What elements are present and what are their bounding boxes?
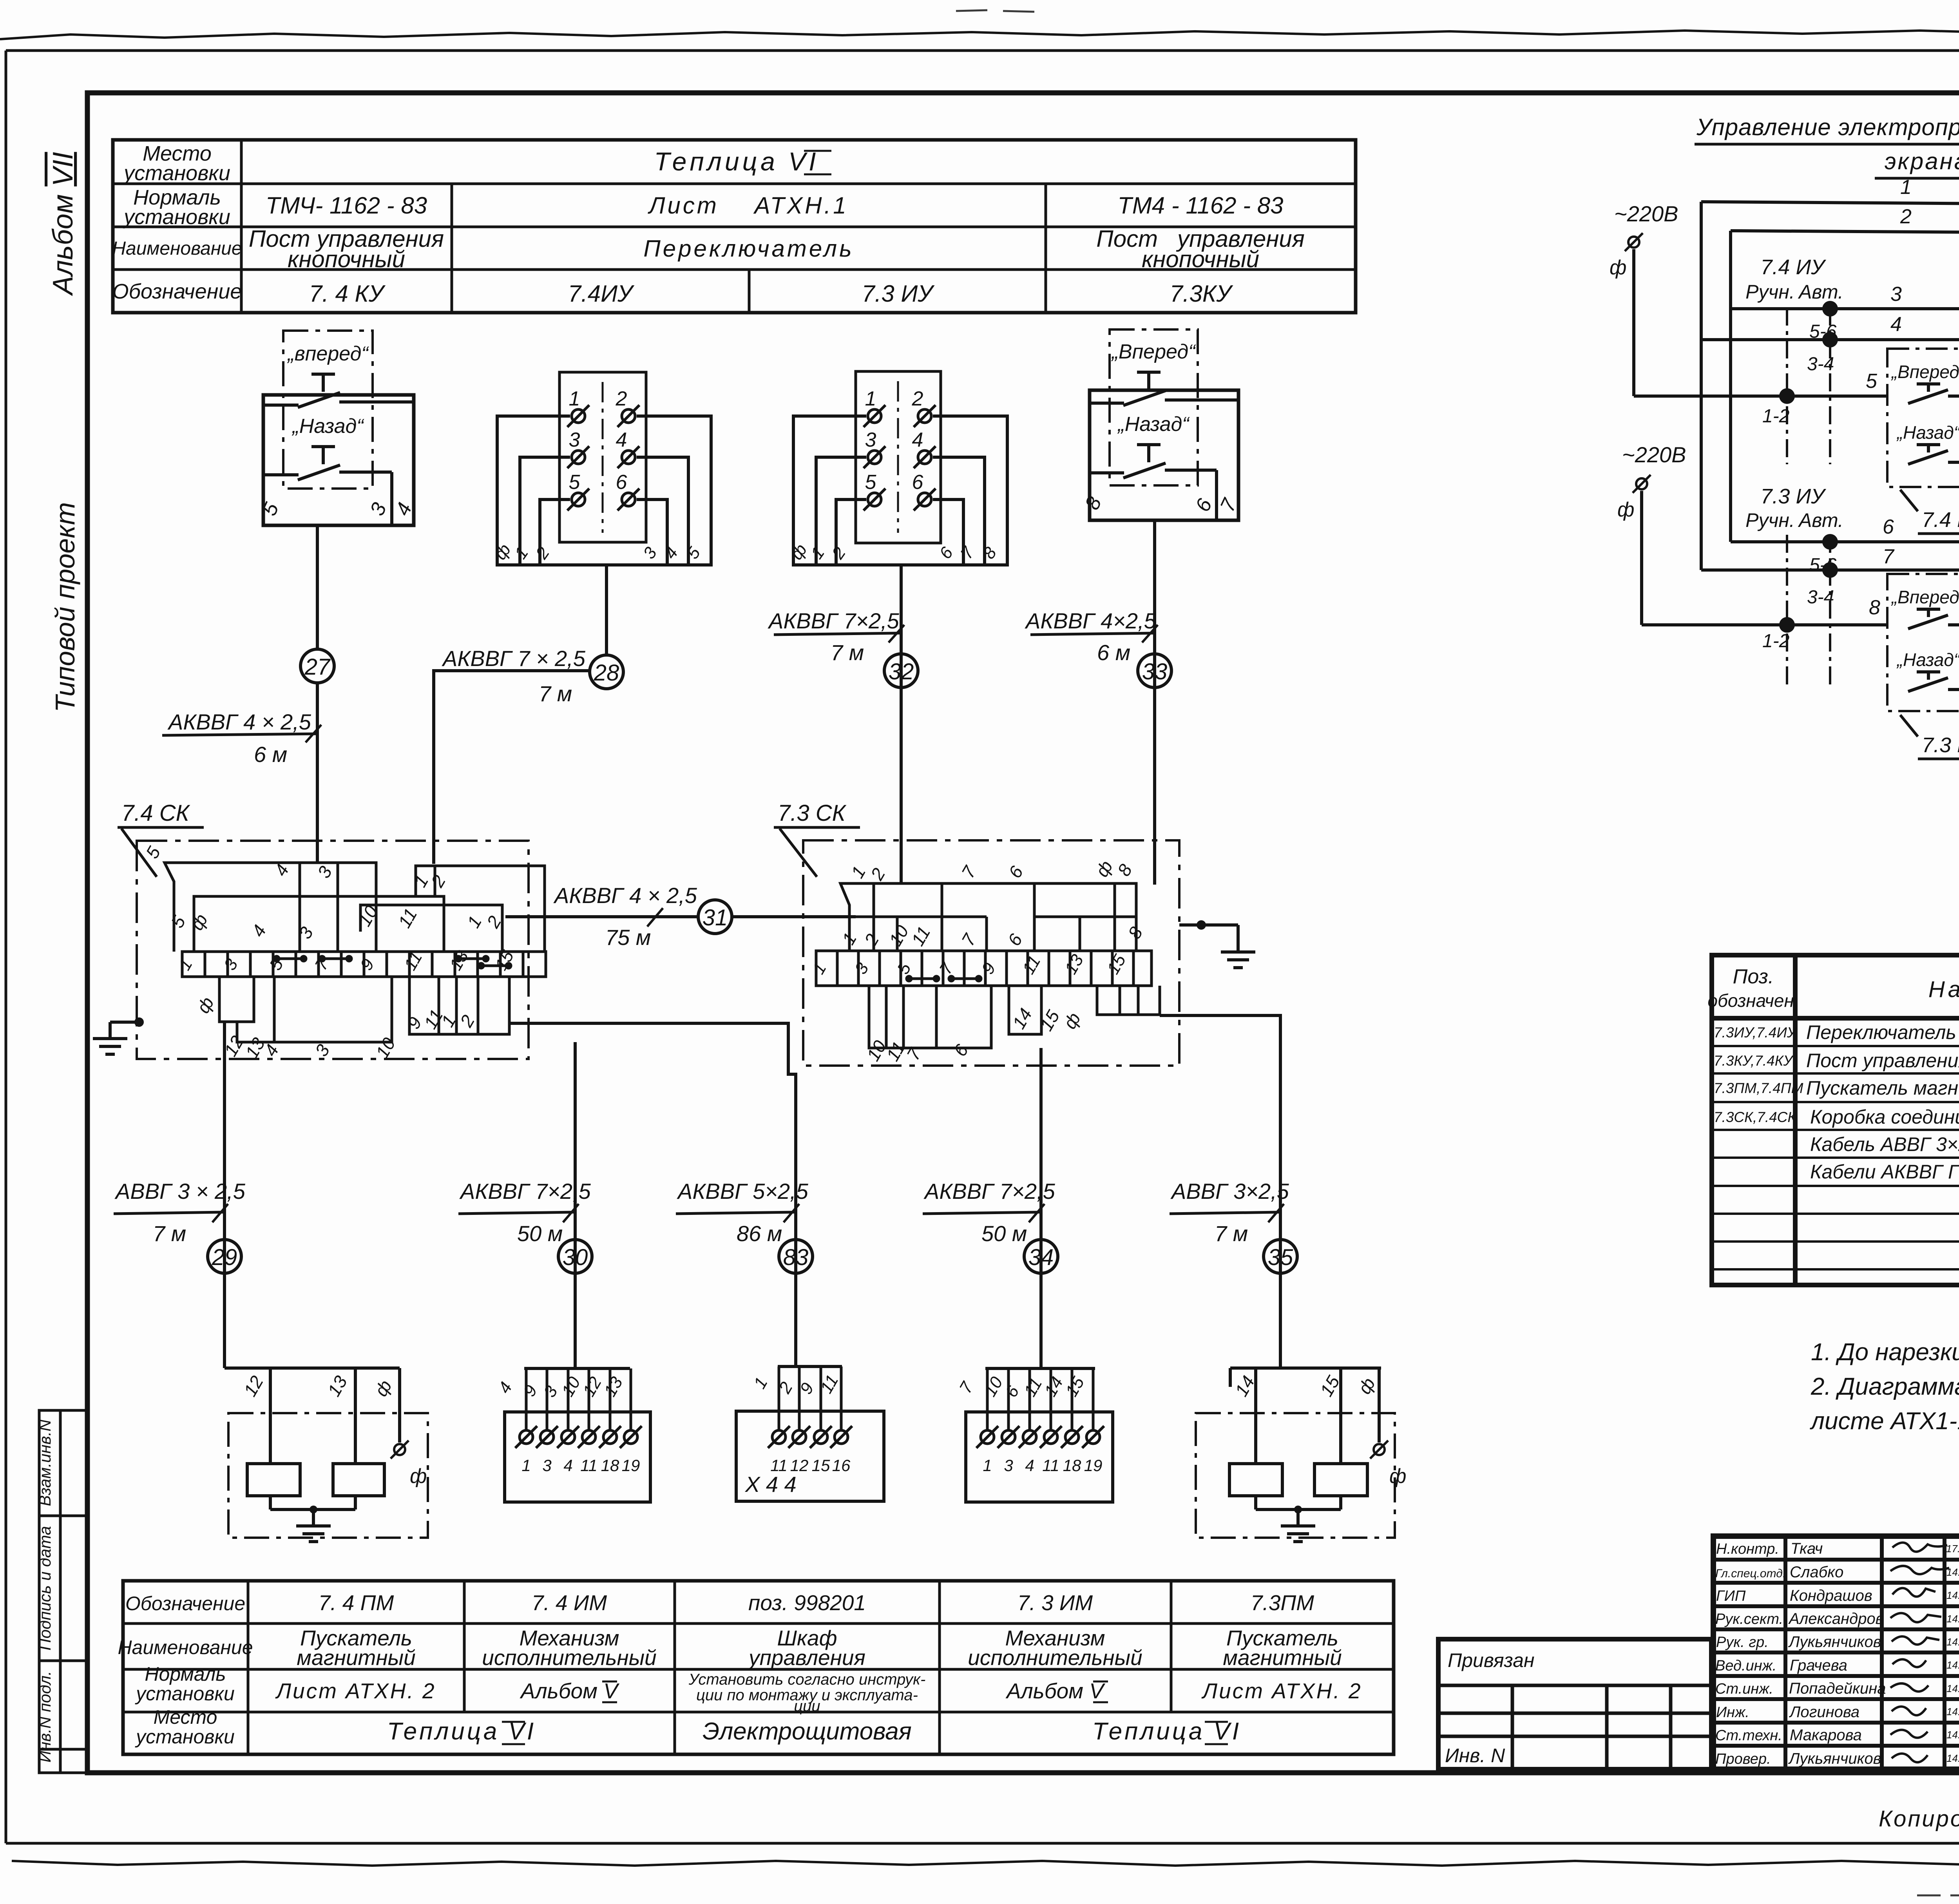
svg-text:Взам.инв.N: Взам.инв.N xyxy=(36,1419,54,1506)
svg-text:Кондрашов: Кондрашов xyxy=(1790,1587,1872,1604)
svg-text:6 м: 6 м xyxy=(1097,640,1130,665)
svg-text:„Назад“: „Назад“ xyxy=(291,415,364,438)
cable mark circle 34 xyxy=(1024,1240,1058,1273)
top device table grid xyxy=(113,140,1356,313)
svg-text:ф: ф xyxy=(1610,256,1626,279)
signature names xyxy=(1788,1540,1886,1767)
svg-text:7.4 СК: 7.4 СК xyxy=(121,800,190,826)
svg-text:Лист АТХН.1: Лист АТХН.1 xyxy=(647,192,848,219)
cable wire 31 between boxes xyxy=(505,883,856,950)
svg-text:Управление электроприводами: Управление электроприводами теплозащитно… xyxy=(1696,114,1959,140)
svg-text:установки: установки xyxy=(122,205,230,229)
wire from 7.4KU down xyxy=(316,525,319,650)
cable label AKVVG 4x2.5 6m (33) xyxy=(1025,608,1158,665)
svg-text:Логинова: Логинова xyxy=(1789,1703,1859,1721)
svg-text:11: 11 xyxy=(580,1456,597,1475)
svg-text:Рук. гр.: Рук. гр. xyxy=(1716,1634,1769,1651)
svg-text:33: 33 xyxy=(1142,659,1168,684)
7.3SK jumper links xyxy=(907,976,981,981)
svg-text:Ручн.: Ручн. xyxy=(1745,281,1795,303)
svg-text:ГИП: ГИП xyxy=(1716,1588,1746,1604)
svg-text:Ткач: Ткач xyxy=(1791,1540,1823,1557)
svg-text:31: 31 xyxy=(702,905,728,930)
svg-text:5: 5 xyxy=(569,471,581,494)
svg-text:3: 3 xyxy=(542,1456,551,1475)
svg-text:Инж.: Инж. xyxy=(1716,1704,1749,1721)
7.3SK terminal strip xyxy=(816,951,1152,986)
svg-text:АКВВГ 7×2,5: АКВВГ 7×2,5 xyxy=(923,1179,1056,1204)
svg-text:Наименование: Наименование xyxy=(112,238,242,259)
svg-text:Ручн.: Ручн. xyxy=(1745,509,1795,531)
svg-text:7.3КУ: 7.3КУ xyxy=(1170,281,1233,307)
svg-text:3: 3 xyxy=(865,429,876,451)
top table row labels xyxy=(112,142,242,303)
svg-text:Александров: Александров xyxy=(1788,1610,1884,1627)
push-button post 7.4KU (schematic) xyxy=(1887,349,1959,534)
svg-text:Лукьянчиков: Лукьянчиков xyxy=(1788,1633,1881,1651)
scan artifact dashes xyxy=(956,10,1959,1895)
wire 5 to button post xyxy=(1634,370,1887,396)
svg-text:6: 6 xyxy=(616,471,627,494)
svg-text:7.3ПМ,7.4ПМ: 7.3ПМ,7.4ПМ xyxy=(1714,1080,1803,1096)
svg-text:7. 4 КУ: 7. 4 КУ xyxy=(309,281,386,307)
svg-text:4: 4 xyxy=(1890,313,1902,336)
svg-text:7.3СК,7.4СК: 7.3СК,7.4СК xyxy=(1714,1109,1797,1125)
cable label ABBG 3x2.5 7m (29) xyxy=(114,1179,246,1246)
svg-text:Инв.N подл.: Инв.N подл. xyxy=(36,1671,54,1763)
svg-text:Лукьянчиков: Лукьянчиков xyxy=(1788,1750,1881,1767)
7.4SK lower cable rectangles xyxy=(219,977,509,1042)
cabinet terminal box X44 xyxy=(736,1366,884,1501)
svg-text:Альбом V: Альбом V xyxy=(1005,1679,1105,1703)
svg-text:„Вперед“: „Вперед“ xyxy=(1111,340,1197,363)
svg-text:4: 4 xyxy=(616,429,627,451)
packet switch 7.3IU xyxy=(787,371,1007,565)
wire 8 to button post xyxy=(1642,596,1887,625)
cable mark circle 83 xyxy=(779,1240,813,1273)
svg-text:Альбом VII: Альбом VII xyxy=(47,152,79,296)
svg-text:АКВВГ 5×2,5: АКВВГ 5×2,5 xyxy=(677,1179,809,1204)
svg-text:2. Диаграмма работы переключ: 2. Диаграмма работы переключателей дана … xyxy=(1811,1373,1959,1400)
svg-text:установки: установки xyxy=(122,161,230,185)
VI overline marks in top table xyxy=(804,151,831,174)
title block outer xyxy=(1713,1536,1959,1769)
top table values xyxy=(249,147,1305,307)
svg-text:1-2: 1-2 xyxy=(1762,406,1789,427)
svg-text:50 м: 50 м xyxy=(517,1221,563,1246)
wire 27 to junction box xyxy=(316,683,319,864)
svg-text:Инв. N: Инв. N xyxy=(1445,1745,1505,1766)
svg-text:1. До нарезки кабелей длины: 1. До нарезки кабелей длины трасс уточни… xyxy=(1811,1339,1959,1366)
svg-text:магнитный: магнитный xyxy=(1223,1645,1342,1670)
actuator terminal box 7.4IM xyxy=(494,1368,650,1502)
svg-text:4: 4 xyxy=(563,1456,572,1475)
svg-text:Пост управления кнопочный П: Пост управления кнопочный ПКЕ 222-2 xyxy=(1806,1050,1959,1071)
cable mark circle 35 xyxy=(1264,1240,1297,1273)
svg-text:29: 29 xyxy=(212,1245,237,1270)
bus wire from 7.4SK to cable 83 xyxy=(509,1023,796,1366)
svg-text:7: 7 xyxy=(1883,545,1895,568)
sheet scan edge top xyxy=(0,29,1959,39)
7.4SK upper cable rectangles xyxy=(165,863,545,952)
svg-text:14.01.86: 14.01.86 xyxy=(1946,1613,1959,1625)
svg-text:7. 3 ИМ: 7. 3 ИМ xyxy=(1018,1591,1093,1615)
svg-text:поз. 998201: поз. 998201 xyxy=(748,1591,866,1615)
svg-text:2: 2 xyxy=(616,387,627,410)
svg-text:Привязан: Привязан xyxy=(1448,1649,1535,1671)
svg-text:Типовой проект: Типовой проект xyxy=(50,502,80,713)
cable label AKVVG 7x2.5 50m (30) xyxy=(458,1179,591,1246)
svg-text:7 м: 7 м xyxy=(153,1221,186,1246)
7.4SK strip numbers xyxy=(175,947,518,974)
svg-text:Ст.инж.: Ст.инж. xyxy=(1715,1681,1773,1697)
svg-text:3-4: 3-4 xyxy=(1807,587,1834,608)
svg-text:14.01.86: 14.01.86 xyxy=(1946,1566,1959,1578)
svg-text:Обозначение: Обозначение xyxy=(112,280,242,303)
svg-text:50 м: 50 м xyxy=(981,1221,1027,1246)
svg-text:Копировал Перелыгина: Копировал Перелыгина xyxy=(1879,1806,1959,1832)
svg-text:магнитный: магнитный xyxy=(297,1645,415,1670)
svg-text:19: 19 xyxy=(1084,1456,1103,1475)
svg-text:15: 15 xyxy=(812,1456,830,1475)
wire 6 xyxy=(1731,516,1959,625)
svg-text:4: 4 xyxy=(912,429,923,451)
svg-text:7.3 СК: 7.3 СК xyxy=(778,800,847,826)
privyazan box xyxy=(1438,1639,1711,1769)
svg-text:19: 19 xyxy=(622,1456,640,1475)
push-button post 7.3KU (schematic) xyxy=(1887,574,1959,759)
cable label AKVVG 5x2.5 86m (83) xyxy=(676,1179,809,1246)
svg-text:Подпись и дата: Подпись и дата xyxy=(36,1526,54,1651)
svg-text:Обозначение: Обозначение xyxy=(125,1593,245,1614)
svg-text:1-2: 1-2 xyxy=(1762,631,1789,652)
svg-text:1: 1 xyxy=(569,387,580,410)
svg-text:8: 8 xyxy=(1869,596,1880,619)
cable mark circle 30 xyxy=(558,1240,592,1273)
svg-text:7 м: 7 м xyxy=(539,681,572,706)
svg-text:3: 3 xyxy=(1890,283,1902,306)
svg-text:установки: установки xyxy=(135,1683,235,1705)
svg-text:3-4: 3-4 xyxy=(1807,354,1834,375)
svg-text:АКВВГ 4 × 2,5: АКВВГ 4 × 2,5 xyxy=(553,883,697,908)
svg-text:ф: ф xyxy=(410,1465,427,1488)
svg-text:6: 6 xyxy=(912,471,923,494)
right schema title xyxy=(1695,114,1959,178)
junction box 7.4SK label xyxy=(118,800,204,877)
wire to circle 30 xyxy=(574,1042,577,1368)
cable label AKVVG 7x2.5 7m xyxy=(442,646,586,706)
svg-text:7. 4 ПМ: 7. 4 ПМ xyxy=(319,1591,394,1615)
svg-text:7 м: 7 м xyxy=(1215,1221,1248,1246)
cable mark circle 32 xyxy=(884,654,918,688)
wire 2 xyxy=(1731,205,1959,542)
svg-text:исполнительный: исполнительный xyxy=(482,1645,656,1670)
7.4SK upper labels xyxy=(142,843,505,942)
wire 28 to junction box xyxy=(434,671,590,864)
svg-text:Провер.: Провер. xyxy=(1715,1751,1771,1767)
svg-text:Слабко: Слабко xyxy=(1790,1564,1843,1581)
svg-text:17.01.86: 17.01.86 xyxy=(1946,1543,1959,1555)
svg-text:7.3ПМ: 7.3ПМ xyxy=(1251,1591,1314,1615)
svg-text:Нормаль: Нормаль xyxy=(145,1663,226,1685)
svg-text:~220В: ~220В xyxy=(1614,201,1678,226)
cable mark circle 29 xyxy=(208,1240,241,1273)
svg-text:14.01.86: 14.01.86 xyxy=(1946,1729,1959,1741)
svg-text:обозначен.: обозначен. xyxy=(1707,990,1799,1011)
svg-text:X 4 4: X 4 4 xyxy=(744,1472,797,1497)
svg-text:управления: управления xyxy=(747,1645,865,1670)
junction box 7.4SK outline xyxy=(137,841,529,1059)
svg-text:5: 5 xyxy=(865,471,877,494)
svg-text:14.01.86: 14.01.86 xyxy=(1946,1589,1959,1601)
svg-text:АКВВГ 4×2,5: АКВВГ 4×2,5 xyxy=(1025,608,1157,633)
parts table rows xyxy=(1714,1021,1959,1267)
svg-text:7.4 КУ: 7.4 КУ xyxy=(1922,508,1959,532)
svg-text:Лист АТХН. 2: Лист АТХН. 2 xyxy=(1201,1679,1362,1703)
svg-text:11: 11 xyxy=(1042,1456,1059,1475)
svg-text:7.3 КУ: 7.3 КУ xyxy=(1922,733,1959,757)
svg-text:Место: Место xyxy=(154,1706,217,1728)
packet switch 7.4IU xyxy=(491,372,711,565)
svg-text:1: 1 xyxy=(865,387,876,410)
actuator terminal box 7.3IM xyxy=(956,1368,1113,1502)
wire to circle 34 xyxy=(1039,1048,1043,1368)
supply ~220V upper xyxy=(1610,201,1678,396)
cable label AKVVG 7x2.5 7m (32) xyxy=(768,608,904,665)
svg-text:7.4 ИУ: 7.4 ИУ xyxy=(1760,255,1826,279)
svg-text:6 м: 6 м xyxy=(254,742,287,767)
wire to circle 29 xyxy=(223,1023,226,1356)
svg-text:ф: ф xyxy=(1617,498,1634,521)
svg-text:14.01.86: 14.01.86 xyxy=(1946,1706,1959,1718)
junction box 7.3SK label xyxy=(774,800,860,877)
magnetic starter 7.3PM xyxy=(1196,1372,1406,1542)
svg-text:кнопочный: кнопочный xyxy=(1142,246,1259,272)
svg-text:27: 27 xyxy=(304,654,331,680)
svg-text:1: 1 xyxy=(983,1456,992,1475)
wire to circle 35 xyxy=(1160,1015,1280,1273)
svg-text:ции: ции xyxy=(794,1698,820,1715)
svg-text:86 м: 86 м xyxy=(737,1221,782,1246)
svg-text:Электрощитовая: Электрощитовая xyxy=(702,1718,912,1745)
svg-text:„Назад“: „Назад“ xyxy=(1117,413,1190,436)
svg-text:„Назад“: „Назад“ xyxy=(1896,422,1959,443)
svg-text:75 м: 75 м xyxy=(605,925,651,950)
svg-text:кнопочный: кнопочный xyxy=(288,246,405,272)
7.3SK lower cable rectangles xyxy=(869,986,1160,1048)
svg-text:Н.контр.: Н.контр. xyxy=(1716,1541,1779,1557)
svg-text:32: 32 xyxy=(889,659,914,684)
push-button post 7.3KU xyxy=(1081,329,1242,520)
signature column labels xyxy=(1715,1541,1786,1767)
svg-text:7 м: 7 м xyxy=(831,640,864,665)
cable mark circle 27 xyxy=(301,649,334,683)
left side stamp boxes xyxy=(39,1410,87,1773)
svg-text:Авт.: Авт. xyxy=(1798,509,1843,531)
svg-text:Переключатель пакетный ПКП25: Переключатель пакетный ПКП25-44-13-У2 xyxy=(1806,1021,1959,1043)
ground at 7.4SK left xyxy=(93,1017,144,1054)
svg-text:исполнительный: исполнительный xyxy=(968,1645,1142,1670)
svg-text:14.01.86: 14.01.86 xyxy=(1946,1683,1959,1694)
svg-text:1: 1 xyxy=(1900,176,1912,199)
7.4SK jumper links xyxy=(274,956,511,968)
svg-text:18: 18 xyxy=(1063,1456,1081,1475)
bottom device table grid xyxy=(123,1581,1394,1754)
svg-text:АВВГ 3 × 2,5: АВВГ 3 × 2,5 xyxy=(114,1179,246,1204)
svg-text:14.01.86: 14.01.86 xyxy=(1946,1659,1959,1671)
svg-text:1: 1 xyxy=(521,1456,530,1475)
svg-text:ТМ4 - 1162 - 83: ТМ4 - 1162 - 83 xyxy=(1117,192,1283,219)
svg-text:Ст.техн.: Ст.техн. xyxy=(1715,1727,1782,1744)
wire 1 xyxy=(1701,176,1959,570)
svg-text:7.3 ИУ: 7.3 ИУ xyxy=(1760,485,1826,508)
7.3SK strip numbers xyxy=(809,951,1130,977)
svg-text:16: 16 xyxy=(832,1456,851,1475)
svg-text:Теплица VI: Теплица VI xyxy=(654,147,819,176)
V and VI overline/underline marks bottom table xyxy=(502,1681,1228,1744)
wire from 7.3KU down xyxy=(1153,520,1156,885)
svg-text:АКВВГ 7 × 2,5: АКВВГ 7 × 2,5 xyxy=(442,646,586,671)
7.3SK upper labels xyxy=(838,857,1147,950)
svg-text:34: 34 xyxy=(1028,1245,1054,1270)
wires into magnetic starter 7.4PM xyxy=(225,1273,400,1464)
svg-text:„вперед“: „вперед“ xyxy=(287,342,369,365)
svg-text:7.3ИУ,7.4ИУ: 7.3ИУ,7.4ИУ xyxy=(1714,1024,1798,1041)
svg-text:3: 3 xyxy=(569,429,580,451)
svg-text:Пускатель магнитный: Пускатель магнитный xyxy=(1806,1077,1959,1099)
svg-text:3: 3 xyxy=(1004,1456,1013,1475)
svg-text:АКВВГ 7×2,5: АКВВГ 7×2,5 xyxy=(459,1179,591,1204)
cable mark circle 28 xyxy=(590,655,623,689)
svg-text:„Вперед“: „Вперед“ xyxy=(1891,362,1959,382)
bottom table row labels xyxy=(118,1593,253,1748)
switch 7.4IU manual/auto columns xyxy=(1745,255,1843,464)
svg-text:Коробка соединительная КСК-1: Коробка соединительная КСК-16 ТУ36.1735-… xyxy=(1810,1106,1959,1128)
svg-text:18: 18 xyxy=(601,1456,619,1475)
wires into magnetic starter 7.3PM xyxy=(1230,1273,1381,1464)
wire 7 xyxy=(1701,545,1959,655)
svg-text:Установить согласно инструк-: Установить согласно инструк- xyxy=(688,1671,926,1688)
cable label ABBG 3x2.5 7m (35) xyxy=(1170,1179,1289,1246)
junction box 7.3SK outline xyxy=(803,840,1179,1066)
cable mark circle 33 xyxy=(1138,654,1171,688)
7.4SK lower labels xyxy=(193,994,479,1062)
cable label AKVVG 7x2.5 50m (34) xyxy=(923,1179,1056,1246)
push-button post 7.4KU xyxy=(258,331,416,525)
svg-text:2: 2 xyxy=(912,387,923,410)
svg-text:14.01.86: 14.01.86 xyxy=(1946,1752,1959,1764)
svg-text:АКВВГ 4 × 2,5: АКВВГ 4 × 2,5 xyxy=(167,709,311,734)
parts table header xyxy=(1707,965,1959,1011)
svg-text:установки: установки xyxy=(135,1726,235,1748)
svg-text:Макарова: Макарова xyxy=(1790,1727,1862,1744)
svg-text:30: 30 xyxy=(563,1245,588,1270)
svg-text:~220В: ~220В xyxy=(1622,442,1686,467)
notes xyxy=(1810,1339,1959,1435)
signature dates xyxy=(1946,1543,1959,1764)
ground at 7.3SK right xyxy=(1179,920,1255,968)
svg-text:4: 4 xyxy=(1025,1456,1034,1475)
svg-text:Поз.: Поз. xyxy=(1733,965,1774,988)
svg-text:6: 6 xyxy=(1883,516,1894,538)
svg-text:7.4ИУ: 7.4ИУ xyxy=(568,281,635,307)
svg-text:7.3 ИУ: 7.3 ИУ xyxy=(862,281,935,307)
svg-text:„Вперед“: „Вперед“ xyxy=(1891,587,1959,607)
svg-text:5: 5 xyxy=(1866,370,1878,393)
cable label AKVVG 4x2.5 6m xyxy=(162,709,321,767)
supply ~220V lower xyxy=(1617,442,1686,625)
wire 4 xyxy=(1701,313,1959,462)
parts list table grid xyxy=(1712,955,1959,1285)
svg-text:Рук.сект.: Рук.сект. xyxy=(1715,1611,1783,1627)
sheet scan edge bottom xyxy=(12,1860,1959,1866)
svg-text:Наименование: Наименование xyxy=(118,1636,253,1658)
svg-text:Авт.: Авт. xyxy=(1798,281,1843,303)
svg-text:28: 28 xyxy=(594,660,619,686)
svg-text:Попадейкина: Попадейкина xyxy=(1789,1680,1886,1697)
svg-text:ф: ф xyxy=(1389,1465,1406,1488)
bottom table values xyxy=(275,1591,1362,1745)
svg-text:Кабели АКВВГ ГОСТ 1508- 78: Кабели АКВВГ ГОСТ 1508- 78 xyxy=(1810,1161,1959,1183)
magnetic starter 7.4PM xyxy=(228,1372,428,1542)
signature squiggles xyxy=(1890,1543,1949,1763)
7.3SK lower labels xyxy=(863,1005,1085,1064)
svg-text:АКВВГ 7×2,5: АКВВГ 7×2,5 xyxy=(768,608,900,633)
svg-text:Наименование: Наименование xyxy=(1928,977,1959,1002)
svg-text:Кабель АВВГ 3×2,5-0.66ГОСТ: Кабель АВВГ 3×2,5-0.66ГОСТ 16442-80 xyxy=(1810,1133,1959,1155)
svg-text:Лист АТХН. 2: Лист АТХН. 2 xyxy=(275,1679,436,1703)
svg-text:Грачева: Грачева xyxy=(1790,1657,1847,1674)
wire from 7.3IU down xyxy=(900,565,903,885)
svg-text:Гл.спец.отд.: Гл.спец.отд. xyxy=(1715,1567,1786,1580)
svg-text:Вед.инж.: Вед.инж. xyxy=(1715,1658,1776,1674)
svg-text:2: 2 xyxy=(1900,205,1912,228)
svg-text:„Назад“: „Назад“ xyxy=(1896,650,1959,670)
svg-text:Переключатель: Переключатель xyxy=(643,235,854,262)
7.4SK terminal strip xyxy=(182,952,546,977)
svg-text:7.3КУ,7.4КУ: 7.3КУ,7.4КУ xyxy=(1714,1053,1794,1069)
svg-text:листе АТХ1-17 .: листе АТХ1-17 . xyxy=(1810,1408,1959,1435)
svg-text:35: 35 xyxy=(1268,1245,1293,1270)
7.3SK upper cable rectangles xyxy=(840,883,1136,951)
svg-text:14.01.86: 14.01.86 xyxy=(1946,1636,1959,1648)
svg-text:АВВГ 3×2,5: АВВГ 3×2,5 xyxy=(1170,1179,1289,1204)
svg-text:83: 83 xyxy=(783,1245,809,1270)
wire 3 xyxy=(1731,283,1959,454)
svg-text:экрана: экрана xyxy=(1885,148,1959,174)
small install note in bottom table xyxy=(688,1671,926,1715)
svg-text:7. 4 ИМ: 7. 4 ИМ xyxy=(532,1591,607,1615)
wire from 7.4IU down xyxy=(605,565,608,655)
switch 7.3IU manual/auto columns xyxy=(1745,485,1843,690)
svg-text:ТМЧ- 1162 - 83: ТМЧ- 1162 - 83 xyxy=(266,192,427,219)
